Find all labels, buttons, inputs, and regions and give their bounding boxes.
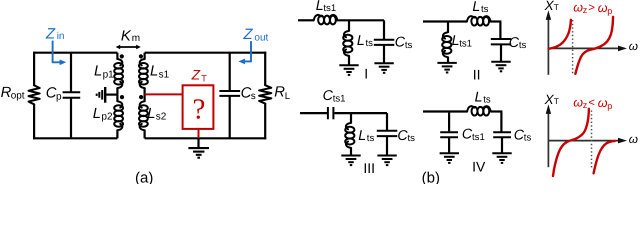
ground primary tap sideways bbox=[104, 87, 106, 103]
capacitor Cs top lead bbox=[229, 53, 231, 91]
svg-text:p: p bbox=[56, 91, 62, 102]
svg-text:ω: ω bbox=[573, 0, 583, 14]
graph2 x-axis bbox=[548, 140, 619, 142]
svg-text:I: I bbox=[364, 65, 368, 81]
svg-text:m: m bbox=[132, 33, 140, 44]
inductor Ls1 bbox=[140, 59, 145, 65]
svg-text:ts: ts bbox=[408, 133, 416, 144]
svg-text:L: L bbox=[475, 90, 483, 106]
svg-text:ts: ts bbox=[519, 40, 527, 51]
wire left edge lower bbox=[33, 104, 35, 139]
svg-text:ts1: ts1 bbox=[472, 132, 485, 143]
svg-text:s1: s1 bbox=[159, 69, 170, 80]
wire primary center tap bbox=[105, 93, 118, 95]
wire Lp2 bottom lead bbox=[116, 130, 118, 139]
svg-text:IV: IV bbox=[472, 159, 486, 175]
svg-text:ω: ω bbox=[629, 39, 638, 53]
wire Cp bottom lead bbox=[70, 98, 72, 139]
svg-text:III: III bbox=[363, 160, 375, 176]
IV: inductor Lts series bbox=[467, 106, 474, 111]
coupling Km arrow bbox=[119, 46, 138, 48]
svg-text:s: s bbox=[251, 91, 256, 102]
svg-text:ts1: ts1 bbox=[323, 3, 336, 14]
III: inductor Lts shunt lead bbox=[350, 113, 352, 123]
II: wire Lts1 to ground bbox=[447, 57, 449, 62]
svg-text:out: out bbox=[254, 32, 268, 43]
IV: wire Cts1 to ground bbox=[448, 137, 450, 152]
IV: capacitor Cts1 lead bbox=[448, 112, 450, 132]
node dot secondary top bbox=[139, 54, 143, 58]
svg-text:II: II bbox=[473, 67, 481, 83]
II: capacitor Cts bbox=[491, 38, 511, 40]
I: capacitor Cts bbox=[374, 39, 395, 41]
I: wire input bbox=[298, 19, 314, 21]
svg-text:ω: ω bbox=[598, 1, 608, 15]
III: inductor Lts shunt bbox=[346, 123, 351, 129]
svg-text:ts1: ts1 bbox=[333, 93, 346, 104]
circuit (a) group bbox=[1, 25, 291, 186]
III: wire Cts to ground bbox=[386, 136, 388, 155]
III: wire mid bbox=[334, 112, 387, 114]
inductor Lp2 bbox=[117, 101, 122, 107]
I: ground under Lts bbox=[339, 64, 358, 66]
svg-text:z: z bbox=[583, 5, 588, 15]
svg-text:T: T bbox=[201, 74, 207, 84]
svg-text:ω: ω bbox=[573, 95, 583, 109]
ground main bbox=[188, 147, 209, 149]
svg-text:p: p bbox=[607, 6, 612, 16]
II: ground under Cts bbox=[491, 61, 510, 63]
svg-text:(a): (a) bbox=[135, 169, 153, 184]
IV: ground under Cts bbox=[492, 152, 511, 154]
I: inductor Lts shunt lead bbox=[348, 20, 350, 31]
IV: wire Cts to ground bbox=[501, 137, 503, 152]
I: ground under Cts bbox=[374, 62, 393, 64]
wire top secondary bbox=[145, 52, 267, 54]
svg-text:>: > bbox=[588, 2, 595, 14]
inductor Ls2 bbox=[140, 101, 145, 107]
svg-text:L: L bbox=[472, 0, 480, 15]
svg-text:L: L bbox=[94, 64, 102, 80]
inductor Ls1 top lead bbox=[144, 53, 146, 60]
wire left edge upper bbox=[33, 52, 35, 86]
wire bottom secondary bbox=[145, 137, 267, 139]
svg-text:T: T bbox=[554, 96, 559, 106]
port arrow Zin bbox=[53, 41, 60, 62]
wire ground stem bbox=[197, 138, 199, 147]
III: wire Lts to ground bbox=[350, 148, 352, 155]
graph2 pole dotted line bbox=[591, 111, 593, 170]
node dot primary center bbox=[120, 95, 124, 99]
wire ZT bottom red bbox=[198, 129, 200, 138]
svg-text:ts: ts bbox=[367, 133, 375, 144]
wire right edge lower bbox=[264, 103, 266, 139]
I: wire Cts to ground bbox=[383, 45, 385, 63]
svg-text:ts: ts bbox=[524, 133, 532, 144]
wire bottom primary bbox=[33, 137, 117, 139]
svg-text:Z: Z bbox=[191, 68, 201, 83]
svg-text:p2: p2 bbox=[101, 112, 113, 123]
I: inductor Lts shunt bbox=[344, 31, 349, 37]
svg-text:R: R bbox=[274, 84, 285, 100]
III: capacitor Cts1 series bbox=[327, 107, 329, 119]
svg-text:ω: ω bbox=[629, 132, 638, 146]
resistor Ropt bbox=[28, 85, 39, 104]
svg-text:T: T bbox=[554, 2, 559, 12]
svg-text:in: in bbox=[57, 31, 65, 42]
svg-text:L: L bbox=[285, 91, 291, 102]
wire Cp top lead bbox=[70, 53, 72, 92]
svg-text:L: L bbox=[93, 106, 101, 122]
svg-text:ω: ω bbox=[598, 96, 608, 110]
II: inductor Lts1 shunt bbox=[443, 32, 448, 38]
node dot primary top bbox=[120, 54, 124, 58]
svg-text:(b): (b) bbox=[422, 169, 440, 184]
II: ground under Lts1 bbox=[437, 62, 456, 64]
I: wire mid bbox=[337, 19, 384, 21]
impedance box ZT bbox=[183, 85, 214, 129]
II: wire to corner bbox=[490, 20, 501, 22]
I: inductor Lts1 series bbox=[314, 15, 321, 20]
svg-text:Z: Z bbox=[242, 26, 253, 43]
capacitor Cp bbox=[63, 91, 81, 93]
svg-text:ts: ts bbox=[366, 38, 374, 49]
III: capacitor Cts lead bbox=[386, 113, 388, 131]
I: wire Lts to ground bbox=[348, 56, 350, 65]
III: wire input bbox=[300, 112, 327, 114]
wire top primary bbox=[33, 52, 117, 54]
graph1 x-axis bbox=[548, 47, 619, 49]
capacitor Cs bottom lead bbox=[229, 96, 231, 138]
port arrow Zout bbox=[244, 42, 251, 62]
inductor Lp1 top lead bbox=[116, 53, 118, 60]
inductor Lp1 bbox=[117, 59, 122, 65]
IV: capacitor Cts bbox=[493, 131, 511, 133]
svg-text:z: z bbox=[583, 100, 588, 110]
node dot secondary center bbox=[139, 95, 143, 99]
I: capacitor Cts lead bbox=[383, 20, 385, 40]
svg-text:L: L bbox=[150, 64, 158, 80]
svg-text:p: p bbox=[607, 101, 612, 111]
capacitor Cs bbox=[219, 90, 240, 92]
svg-text:s2: s2 bbox=[156, 112, 167, 123]
II: inductor Lts1 shunt lead bbox=[447, 22, 449, 33]
graph2 curve left branch bbox=[553, 109, 589, 176]
graph1 curve right branch bbox=[575, 17, 613, 74]
svg-text:ts: ts bbox=[483, 95, 491, 106]
II: wire Cts to ground bbox=[500, 44, 502, 61]
svg-text:ts: ts bbox=[405, 40, 413, 51]
inductor Lp2 top lead bbox=[116, 95, 118, 102]
svg-text:L: L bbox=[357, 33, 365, 49]
graph1 pole dotted line bbox=[572, 20, 574, 75]
graph2 curve right branch bbox=[594, 141, 615, 173]
graph2 y-axis bbox=[547, 111, 549, 167]
II: wire input bbox=[423, 20, 467, 22]
graph1 y-axis bbox=[547, 17, 549, 75]
III: ground under Lts bbox=[341, 155, 360, 157]
svg-text:opt: opt bbox=[11, 91, 25, 102]
wire Ls2 bottom lead bbox=[144, 130, 146, 139]
wire secondary tap red bbox=[145, 93, 183, 95]
svg-text:L: L bbox=[147, 106, 155, 122]
III: capacitor Cts bbox=[377, 130, 398, 132]
inductor Ls2 top lead bbox=[144, 95, 146, 102]
svg-text:p1: p1 bbox=[103, 69, 115, 80]
svg-text:ts: ts bbox=[481, 4, 489, 15]
svg-text:?: ? bbox=[192, 93, 205, 125]
wire right edge upper bbox=[264, 52, 266, 86]
IV: ground under Cts1 bbox=[440, 152, 459, 154]
svg-text:ts1: ts1 bbox=[459, 38, 472, 49]
wire Lp1 bottom lead bbox=[116, 88, 118, 96]
resistor RL bbox=[259, 85, 271, 103]
svg-text:L: L bbox=[358, 128, 366, 144]
wire Ls1 bottom lead bbox=[144, 88, 146, 96]
III: ground under Cts bbox=[377, 155, 396, 157]
IV: wire to corner bbox=[491, 110, 503, 112]
svg-text:K: K bbox=[121, 28, 132, 44]
svg-text:<: < bbox=[588, 97, 595, 109]
svg-text:Z: Z bbox=[45, 25, 56, 42]
II: inductor Lts series bbox=[467, 16, 474, 21]
graph1 curve left branch bbox=[549, 20, 571, 49]
IV: wire input bbox=[423, 110, 467, 112]
IV: capacitor Cts1 bbox=[440, 131, 458, 133]
